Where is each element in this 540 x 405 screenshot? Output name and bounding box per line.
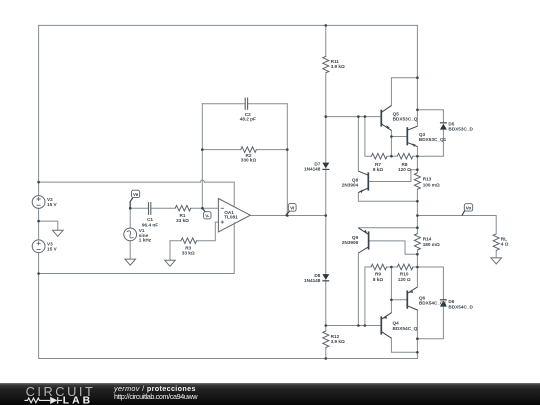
svg-text:LAB: LAB (63, 396, 93, 405)
wire Q6 collector to bottom rail (416, 310, 418, 359)
svg-text:1N4148: 1N4148 (304, 278, 321, 283)
transistor Q6 (407, 287, 417, 310)
wire R10 right lead (413, 266, 418, 268)
wire R13 bottom to Vo node (416, 189, 418, 233)
wire Q5 emitter to Q3 base (391, 130, 407, 136)
ground V1 (125, 259, 136, 265)
wire Q3 emitter down (416, 147, 418, 170)
source V1 (124, 228, 137, 241)
wire C2 left lead (202, 103, 245, 105)
wire R13 top lead (416, 170, 418, 173)
wire feedback right vertical (286, 104, 288, 216)
junction R10 / D6 / Q6 emitter (416, 266, 419, 269)
label Q9 (342, 235, 359, 245)
wire R12 bottom lead (325, 348, 327, 359)
resistor R10 (397, 264, 413, 270)
junction Q5 emitter / Q3 base (390, 135, 393, 138)
wire D5 bottom branch (417, 130, 443, 156)
ground RL (491, 258, 502, 264)
node flag Ve (130, 190, 140, 208)
wire bias chain top (R11 leads) (325, 25, 327, 56)
wire Vo rail (417, 216, 496, 234)
svg-text:Q6: Q6 (419, 295, 426, 300)
resistor R1 (175, 205, 191, 211)
svg-text:BDX54C_Q1: BDX54C_Q1 (419, 301, 447, 306)
wire Q9 collector vertical (357, 253, 359, 326)
label C2 (240, 112, 256, 121)
label R9 (373, 272, 384, 282)
wire top rail (39, 24, 418, 26)
wire Q6 base (391, 299, 407, 301)
svg-text:R14: R14 (423, 236, 432, 241)
wire top drive rail (326, 116, 382, 118)
wire D7 to D8 through Vi node (325, 169, 327, 274)
circuitlab logo (0, 375, 100, 405)
voltage source V2 (32, 196, 45, 209)
label D5 (448, 121, 473, 131)
label OA1 (224, 210, 238, 220)
wire V3 bottom to bottom rail (38, 253, 40, 359)
junction op-amp output / feedback (286, 214, 289, 217)
svg-text:Q4: Q4 (393, 321, 400, 326)
wire Q8 emitter (358, 193, 417, 202)
svg-text:3.9 kΩ: 3.9 kΩ (331, 339, 345, 344)
svg-text:RL: RL (501, 236, 507, 241)
junction supplies midpoint (37, 220, 40, 223)
svg-text:15 V: 15 V (47, 247, 58, 252)
wire D6 top branch (417, 267, 443, 300)
junction D5 branch (416, 109, 419, 112)
svg-text:D6: D6 (448, 299, 454, 304)
transistor Q3 (407, 126, 417, 147)
diode D8 (322, 274, 329, 281)
voltage source V3 (32, 240, 45, 253)
junction Q9 emitter / Vo (416, 226, 419, 229)
wire Q8 base (368, 170, 417, 182)
resistor R3 (181, 238, 197, 244)
label V1 (139, 228, 152, 243)
label R12 (331, 334, 345, 344)
svg-text:8 kΩ: 8 kΩ (373, 277, 384, 282)
wire R7 to R8 (387, 155, 397, 157)
wire R8 right lead (413, 155, 418, 157)
wire hop to op-amp top pin (205, 182, 235, 206)
transistor Q9 (358, 228, 368, 253)
junction R12 bottom / -rail (325, 357, 328, 360)
svg-text:BDX53C_Q1: BDX53C_Q1 (419, 137, 447, 142)
svg-text:BDX53C_Q: BDX53C_Q (393, 117, 418, 122)
op-amp OA1 (218, 199, 250, 232)
wire right vertical top half (416, 25, 418, 126)
wire Q6 emitter up (416, 267, 418, 287)
svg-text:180 mΩ: 180 mΩ (423, 242, 440, 247)
svg-text:120 Ω: 120 Ω (398, 167, 411, 172)
footer bar (0, 383, 540, 405)
wire R3 left lead to ground (170, 241, 181, 260)
junction Q4 emitter / Q6 base (390, 299, 393, 302)
label Q8 (342, 177, 359, 187)
junction R8 / D5 / Q3 emitter (416, 155, 419, 158)
wire R2 right lead (256, 149, 287, 151)
wire D5 top branch (417, 110, 443, 122)
junction input node (129, 207, 132, 210)
junction Vi node / bias chain (325, 214, 328, 217)
junction V- node (201, 207, 204, 210)
wire R2 left lead (202, 149, 241, 151)
junction -15V rail / op-amp supply branch (37, 272, 40, 275)
diode D6 (440, 299, 447, 306)
wire RL bottom lead (495, 250, 497, 257)
label C1 (142, 217, 158, 227)
capacitor C1 (149, 202, 151, 215)
svg-text:1N4148: 1N4148 (304, 166, 321, 171)
junction R9 R10 node (390, 266, 393, 269)
junction R7 branch / drive rail (364, 115, 367, 118)
resistor R7 (371, 153, 387, 159)
wire ground branch of supplies (39, 221, 58, 230)
wire between V2 and V3 (38, 208, 40, 240)
junction Q8 emitter / R13 bottom (416, 200, 419, 203)
svg-text:120 Ω: 120 Ω (398, 277, 411, 282)
svg-text:BDX54C_Q: BDX54C_Q (393, 326, 418, 331)
transistor Q5 (381, 106, 391, 131)
svg-text:48.2 pF: 48.2 pF (240, 116, 256, 121)
wire D6 bottom branch (417, 307, 443, 339)
wire left vertical V2 top lead (38, 25, 40, 195)
ground supplies (53, 230, 64, 236)
svg-text:Vo: Vo (466, 206, 472, 211)
diode D7 (322, 163, 329, 170)
wire Q9 base (369, 241, 418, 254)
junction bottom drive rail / bias chain (325, 324, 328, 327)
label Q6 (419, 295, 447, 305)
resistor RL (493, 234, 499, 251)
wire R14 bottom to R9 R10 rail (416, 250, 418, 267)
svg-text:BDX54C_D: BDX54C_D (448, 305, 473, 310)
node flag Vo (462, 204, 473, 216)
label D6 (448, 299, 473, 309)
wire negative supply rail to op-amp (39, 223, 235, 274)
svg-text:8 kΩ: 8 kΩ (373, 167, 384, 172)
wire hop over feedback vertical (200, 180, 204, 182)
label R1 (176, 213, 189, 223)
wire C2 right lead (248, 103, 287, 105)
label D7 (304, 161, 321, 171)
svg-text:33 kΩ: 33 kΩ (176, 218, 189, 223)
wire bottom rail (39, 358, 418, 360)
svg-text:15 V: 15 V (47, 202, 58, 207)
label R7 (373, 162, 384, 172)
label V3 (47, 242, 58, 252)
label R14 (423, 236, 440, 247)
svg-text:Ve: Ve (133, 192, 139, 197)
wire input node to C1 (130, 207, 148, 209)
wire R1 to op-amp inverting input (191, 207, 219, 209)
svg-text:V-: V- (205, 213, 210, 218)
resistor R9 (371, 264, 387, 270)
resistor R8 (397, 153, 413, 159)
junction D6 bottom (416, 337, 419, 340)
capacitor C2 (245, 98, 247, 110)
ground R3 (165, 260, 176, 266)
label D8 (304, 273, 321, 283)
wire op-amp non-inverting input (197, 222, 219, 241)
junction top drive rail (325, 115, 328, 118)
junction Q9 collector / drive rail (357, 324, 360, 327)
svg-text:3.9 kΩ: 3.9 kΩ (331, 64, 345, 69)
label V2 (47, 197, 58, 207)
svg-text:2N3904: 2N3904 (342, 182, 359, 187)
label R8 (398, 162, 411, 172)
svg-text:96.4 nF: 96.4 nF (142, 222, 158, 227)
junction Vo node (416, 214, 419, 217)
wire V1 bottom lead (129, 241, 131, 259)
wire bottom drive rail (326, 325, 382, 327)
junction feedback R2 left (201, 148, 204, 151)
label Q3 (419, 132, 447, 142)
resistor R11 (323, 56, 329, 73)
svg-text:R13: R13 (423, 177, 432, 182)
label R3 (182, 245, 195, 255)
wire feedback left vertical (201, 104, 203, 209)
svg-text:1 kHz: 1 kHz (139, 238, 152, 243)
wire R7 left vertical (365, 117, 372, 157)
label R10 (398, 272, 411, 282)
wire R9 left vertical (365, 267, 371, 326)
svg-text:Vi: Vi (290, 206, 294, 211)
junction top rail / bias chain (325, 24, 328, 27)
junction Q5 collector / +rail (416, 76, 419, 79)
wire R11 bottom to D7 (325, 73, 327, 163)
wire Q4 collector (391, 338, 417, 352)
svg-text:BDX53C_D: BDX53C_D (448, 127, 473, 132)
junction +15V rail / op-amp supply branch (37, 181, 40, 184)
svg-text:2N3906: 2N3906 (342, 240, 359, 245)
resistor R14 (414, 234, 420, 251)
label R2 (241, 153, 257, 163)
diode D5 (440, 122, 447, 129)
wire Q5 emitter to R7 R8 node (390, 137, 392, 157)
wire D8 to R12 (325, 281, 327, 331)
transistor Q8 (358, 171, 368, 193)
junction feedback R2 right (286, 148, 289, 151)
wire op-amp output to bias chain (250, 215, 325, 217)
junction R7 R8 node (390, 155, 393, 158)
footer text (114, 385, 197, 403)
svg-text:4 Ω: 4 Ω (501, 242, 509, 247)
label R11 (331, 59, 345, 69)
wire Q9 emitter (358, 227, 417, 229)
junction Q8 base / R13 top (416, 168, 419, 171)
label Q5 (393, 112, 418, 122)
svg-text:TL081: TL081 (224, 215, 238, 220)
resistor R2 (241, 147, 257, 153)
svg-text:100 mΩ: 100 mΩ (423, 182, 440, 187)
svg-text:330 kΩ: 330 kΩ (241, 157, 257, 162)
label RL (501, 236, 509, 246)
junction Q4 collector (416, 351, 419, 354)
junction Q8 collector / drive rail (357, 115, 360, 118)
node flag Vi (286, 204, 296, 216)
node flag V- (202, 208, 211, 219)
resistor R13 (414, 173, 420, 190)
wire C1 to R1 (151, 207, 175, 209)
label R13 (423, 177, 440, 188)
wire V1 top lead (129, 208, 131, 228)
svg-text:33 kΩ: 33 kΩ (182, 250, 195, 255)
transistor Q4 (381, 313, 391, 339)
junction R9 branch / drive rail (364, 324, 367, 327)
wire Q8 collector vertical (357, 117, 359, 172)
wire Q5 collector (391, 78, 417, 106)
junction Q9 base / R14 bottom (416, 253, 419, 256)
resistor R12 (323, 331, 329, 348)
wire R9 R10 node down to Q4 emitter (390, 267, 392, 313)
wire R9 to R10 (387, 266, 398, 268)
wire positive supply rail to op-amp top pin (39, 181, 200, 183)
label Q4 (393, 321, 418, 331)
